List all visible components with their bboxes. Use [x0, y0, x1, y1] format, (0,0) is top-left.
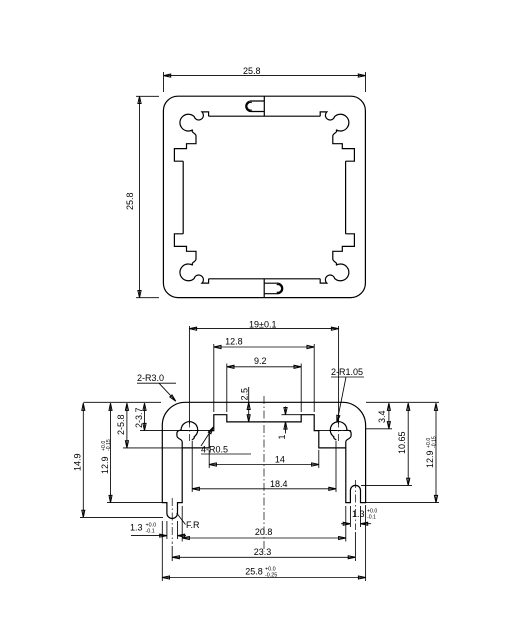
- svg-text:-0.1: -0.1: [367, 515, 376, 521]
- inner floor: [209, 278, 321, 280]
- 12.9 left extension line: [107, 502, 163, 504]
- right boss center mark: [329, 429, 348, 431]
- lower view inner ledges and center ceiling: [182, 415, 346, 448]
- inner ceiling: [209, 115, 321, 117]
- vertical centerline: [263, 396, 265, 552]
- 12.9 right extension line: [366, 502, 439, 504]
- dimension 14 (upper cavity width): [209, 464, 319, 466]
- svg-text:19±0.1: 19±0.1: [249, 320, 276, 330]
- svg-text:-0.25: -0.25: [265, 572, 277, 578]
- svg-text:12.8: 12.8: [225, 337, 243, 347]
- dimension 10.65 (groove top depth): [407, 403, 409, 485]
- inner profile bottom-right corner boss: [320, 234, 354, 283]
- dimension 2-3.7 (upper ledge depth): [144, 403, 146, 430]
- svg-text:23.3: 23.3: [254, 547, 272, 557]
- inner right wall: [345, 161, 347, 234]
- 5.8 extension line: [123, 447, 183, 449]
- svg-text:F.R: F.R: [186, 520, 200, 530]
- svg-text:12.9: 12.9: [425, 450, 435, 468]
- lower view right outline (top, corner, wall, groove, boss hook): [264, 402, 366, 502]
- svg-text:18.4: 18.4: [270, 479, 288, 489]
- svg-text:25.8: 25.8: [243, 66, 261, 76]
- dimension 25.8 (top view height): [139, 96, 141, 297]
- svg-text:3.4: 3.4: [377, 410, 387, 423]
- dimension 25.8 (top view width): [164, 75, 366, 77]
- left tongue centerline: [171, 498, 173, 544]
- dimension 12.9 +0.0/-0.15 right: [435, 403, 437, 502]
- svg-text:1.3: 1.3: [352, 509, 365, 519]
- svg-text:25.8: 25.8: [245, 566, 263, 576]
- svg-text:4-R0.5: 4-R0.5: [201, 445, 228, 455]
- dimension 18.4 (hook span): [192, 488, 336, 490]
- dimension 1.3 +0.0/-0.1 (groove width): [341, 523, 350, 525]
- svg-text:2-R3.0: 2-R3.0: [137, 373, 164, 383]
- svg-text:2-R1.05: 2-R1.05: [331, 367, 363, 377]
- svg-text:25.8: 25.8: [125, 192, 135, 210]
- 10.65 extension line: [361, 484, 412, 486]
- inner profile top-left corner boss: [174, 112, 208, 161]
- right groove centerline: [354, 480, 356, 530]
- dimension 12.8 (notch outer width): [214, 346, 314, 348]
- inner profile top-right corner boss: [320, 112, 354, 161]
- left boss center mark: [180, 429, 199, 431]
- bottom center hook (snap slot): [264, 283, 283, 294]
- dimension 14.9 (overall height): [82, 403, 84, 517]
- inner profile bottom-left corner boss: [174, 234, 208, 283]
- top center hook (snap slot): [246, 101, 265, 112]
- dimension 12.9 +0.0/-0.15 left: [110, 403, 112, 502]
- dimension 2.5 (center ceiling thickness): [248, 387, 250, 422]
- 3.4 extension line: [366, 428, 392, 430]
- svg-text:2-5.8: 2-5.8: [116, 414, 126, 435]
- svg-text:2-3.7: 2-3.7: [134, 407, 144, 428]
- svg-text:10.65: 10.65: [397, 431, 407, 454]
- 3.7 extension line: [140, 430, 177, 432]
- top surface extension line: [83, 401, 161, 403]
- dimension 20.8 (inner wall spacing): [182, 537, 346, 539]
- inner left wall: [182, 161, 184, 234]
- svg-text:14: 14: [275, 454, 285, 464]
- bottom extension line: [80, 516, 163, 518]
- svg-text:2.5: 2.5: [239, 388, 249, 401]
- svg-text:-0.15: -0.15: [431, 436, 437, 448]
- svg-text:1: 1: [277, 434, 287, 439]
- svg-text:1.3: 1.3: [130, 523, 143, 533]
- svg-text:12.9: 12.9: [100, 456, 110, 474]
- top view outer profile (25.8 x 25.8 square tube): [163, 96, 365, 297]
- dimension 2-5.8 (lower ledge depth): [126, 403, 128, 448]
- dimension 9.2 (notch inner width): [227, 366, 301, 368]
- svg-text:-0.1: -0.1: [146, 528, 155, 534]
- ledge line under right boss: [319, 430, 351, 432]
- ledge line under left boss: [177, 430, 209, 432]
- dimension 1.3 +0.0/-0.1 (tongue width): [131, 535, 167, 537]
- dimension 1 (notch step height): [285, 407, 287, 415]
- dimension 23.3 (tongue/groove centers): [172, 556, 355, 558]
- dimension 19±0.1 (boss spacing): [189, 328, 338, 330]
- dimension 3.4 (right ledge): [388, 403, 390, 429]
- svg-text:-0.15: -0.15: [106, 439, 112, 451]
- svg-text:20.8: 20.8: [255, 527, 273, 537]
- dimension 25.8 +0.0/-0.25 (overall width): [162, 577, 365, 579]
- right top extension line: [366, 401, 439, 403]
- svg-text:9.2: 9.2: [254, 356, 267, 366]
- svg-text:14.9: 14.9: [73, 453, 83, 471]
- lower view left outline (top, R3.0 corner, wall, tongue, boss hook): [162, 402, 264, 518]
